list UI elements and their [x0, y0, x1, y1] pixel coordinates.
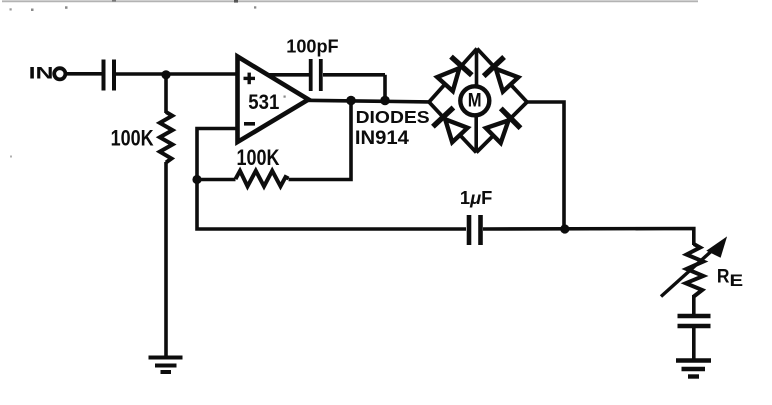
- ground G2: [676, 361, 711, 377]
- RE arrow head: [706, 236, 727, 257]
- svg-text:M: M: [468, 90, 482, 111]
- motor M vertical shaft bottom: [474, 117, 478, 153]
- input terminal circle: [54, 68, 65, 79]
- svg-text:IN914: IN914: [355, 127, 409, 149]
- diode D4 bottom-right (S to E): [486, 120, 509, 143]
- capacitor C2 100pF: [311, 59, 321, 91]
- op-amp + symbol: [244, 73, 256, 85]
- wire C1 to op-amp + input: [116, 72, 237, 76]
- diode D3 bottom-left (S to W): [445, 119, 467, 142]
- top border line: [2, 0, 698, 2]
- svg-text:R: R: [717, 266, 730, 288]
- wire 100pF right lead: [323, 73, 385, 77]
- svg-text:IN: IN: [29, 64, 54, 83]
- op-amp output wire: [305, 100, 429, 102]
- op-amp U1 531: [238, 57, 309, 143]
- diode D2 top-right (E to N): [496, 69, 518, 92]
- speck after 531: [284, 96, 286, 98]
- variable resistor RE zigzag: [686, 244, 704, 297]
- resistor R2 100K (horizontal): [236, 171, 289, 187]
- diode D1 top-left (W to N): [437, 68, 459, 91]
- diode bridge diamond edges: [429, 49, 527, 153]
- node output junction 1: [346, 96, 356, 106]
- svg-text:E: E: [730, 272, 744, 290]
- node junction at input divider: [161, 70, 170, 79]
- wire 100pF branch riser: [383, 75, 387, 101]
- wire terminal to C1: [66, 72, 102, 76]
- svg-text:531: 531: [248, 91, 279, 114]
- wire R2 to output node: [289, 101, 352, 180]
- wire R1 to ground: [164, 162, 168, 356]
- svg-text:100K: 100K: [111, 125, 154, 150]
- wire 100pF left lead to op-amp top edge: [268, 73, 309, 77]
- wire C3 to RE corner: [483, 229, 694, 246]
- ground G1: [149, 358, 183, 373]
- capacitor C4: [678, 316, 711, 326]
- wire - input to feedback node: [197, 129, 238, 180]
- motor M circle: [460, 86, 489, 115]
- wire junction down to R1: [164, 74, 168, 113]
- wire C4 to ground: [692, 328, 696, 359]
- svg-text:DIODES: DIODES: [356, 107, 430, 127]
- speck noise: [10, 6, 257, 157]
- resistor R1 100K (vertical): [160, 112, 173, 163]
- svg-text:100pF: 100pF: [286, 37, 338, 58]
- wire node down to bottom loop: [197, 180, 466, 230]
- capacitor C3 1uF: [469, 215, 481, 245]
- wire node to R2: [197, 178, 236, 182]
- RE arrow shaft: [661, 247, 716, 297]
- node feedback junction: [192, 175, 201, 184]
- svg-text:100K: 100K: [237, 145, 280, 170]
- motor M vertical shaft top: [475, 49, 479, 87]
- capacitor C1: [104, 60, 115, 91]
- wire RE to C4: [692, 295, 696, 314]
- node bottom junction: [560, 224, 569, 233]
- wire E vertex right and down: [527, 102, 564, 229]
- node output junction 2: [380, 96, 390, 106]
- svg-text:1μF: 1μF: [460, 188, 492, 208]
- op-amp - symbol: [244, 122, 255, 126]
